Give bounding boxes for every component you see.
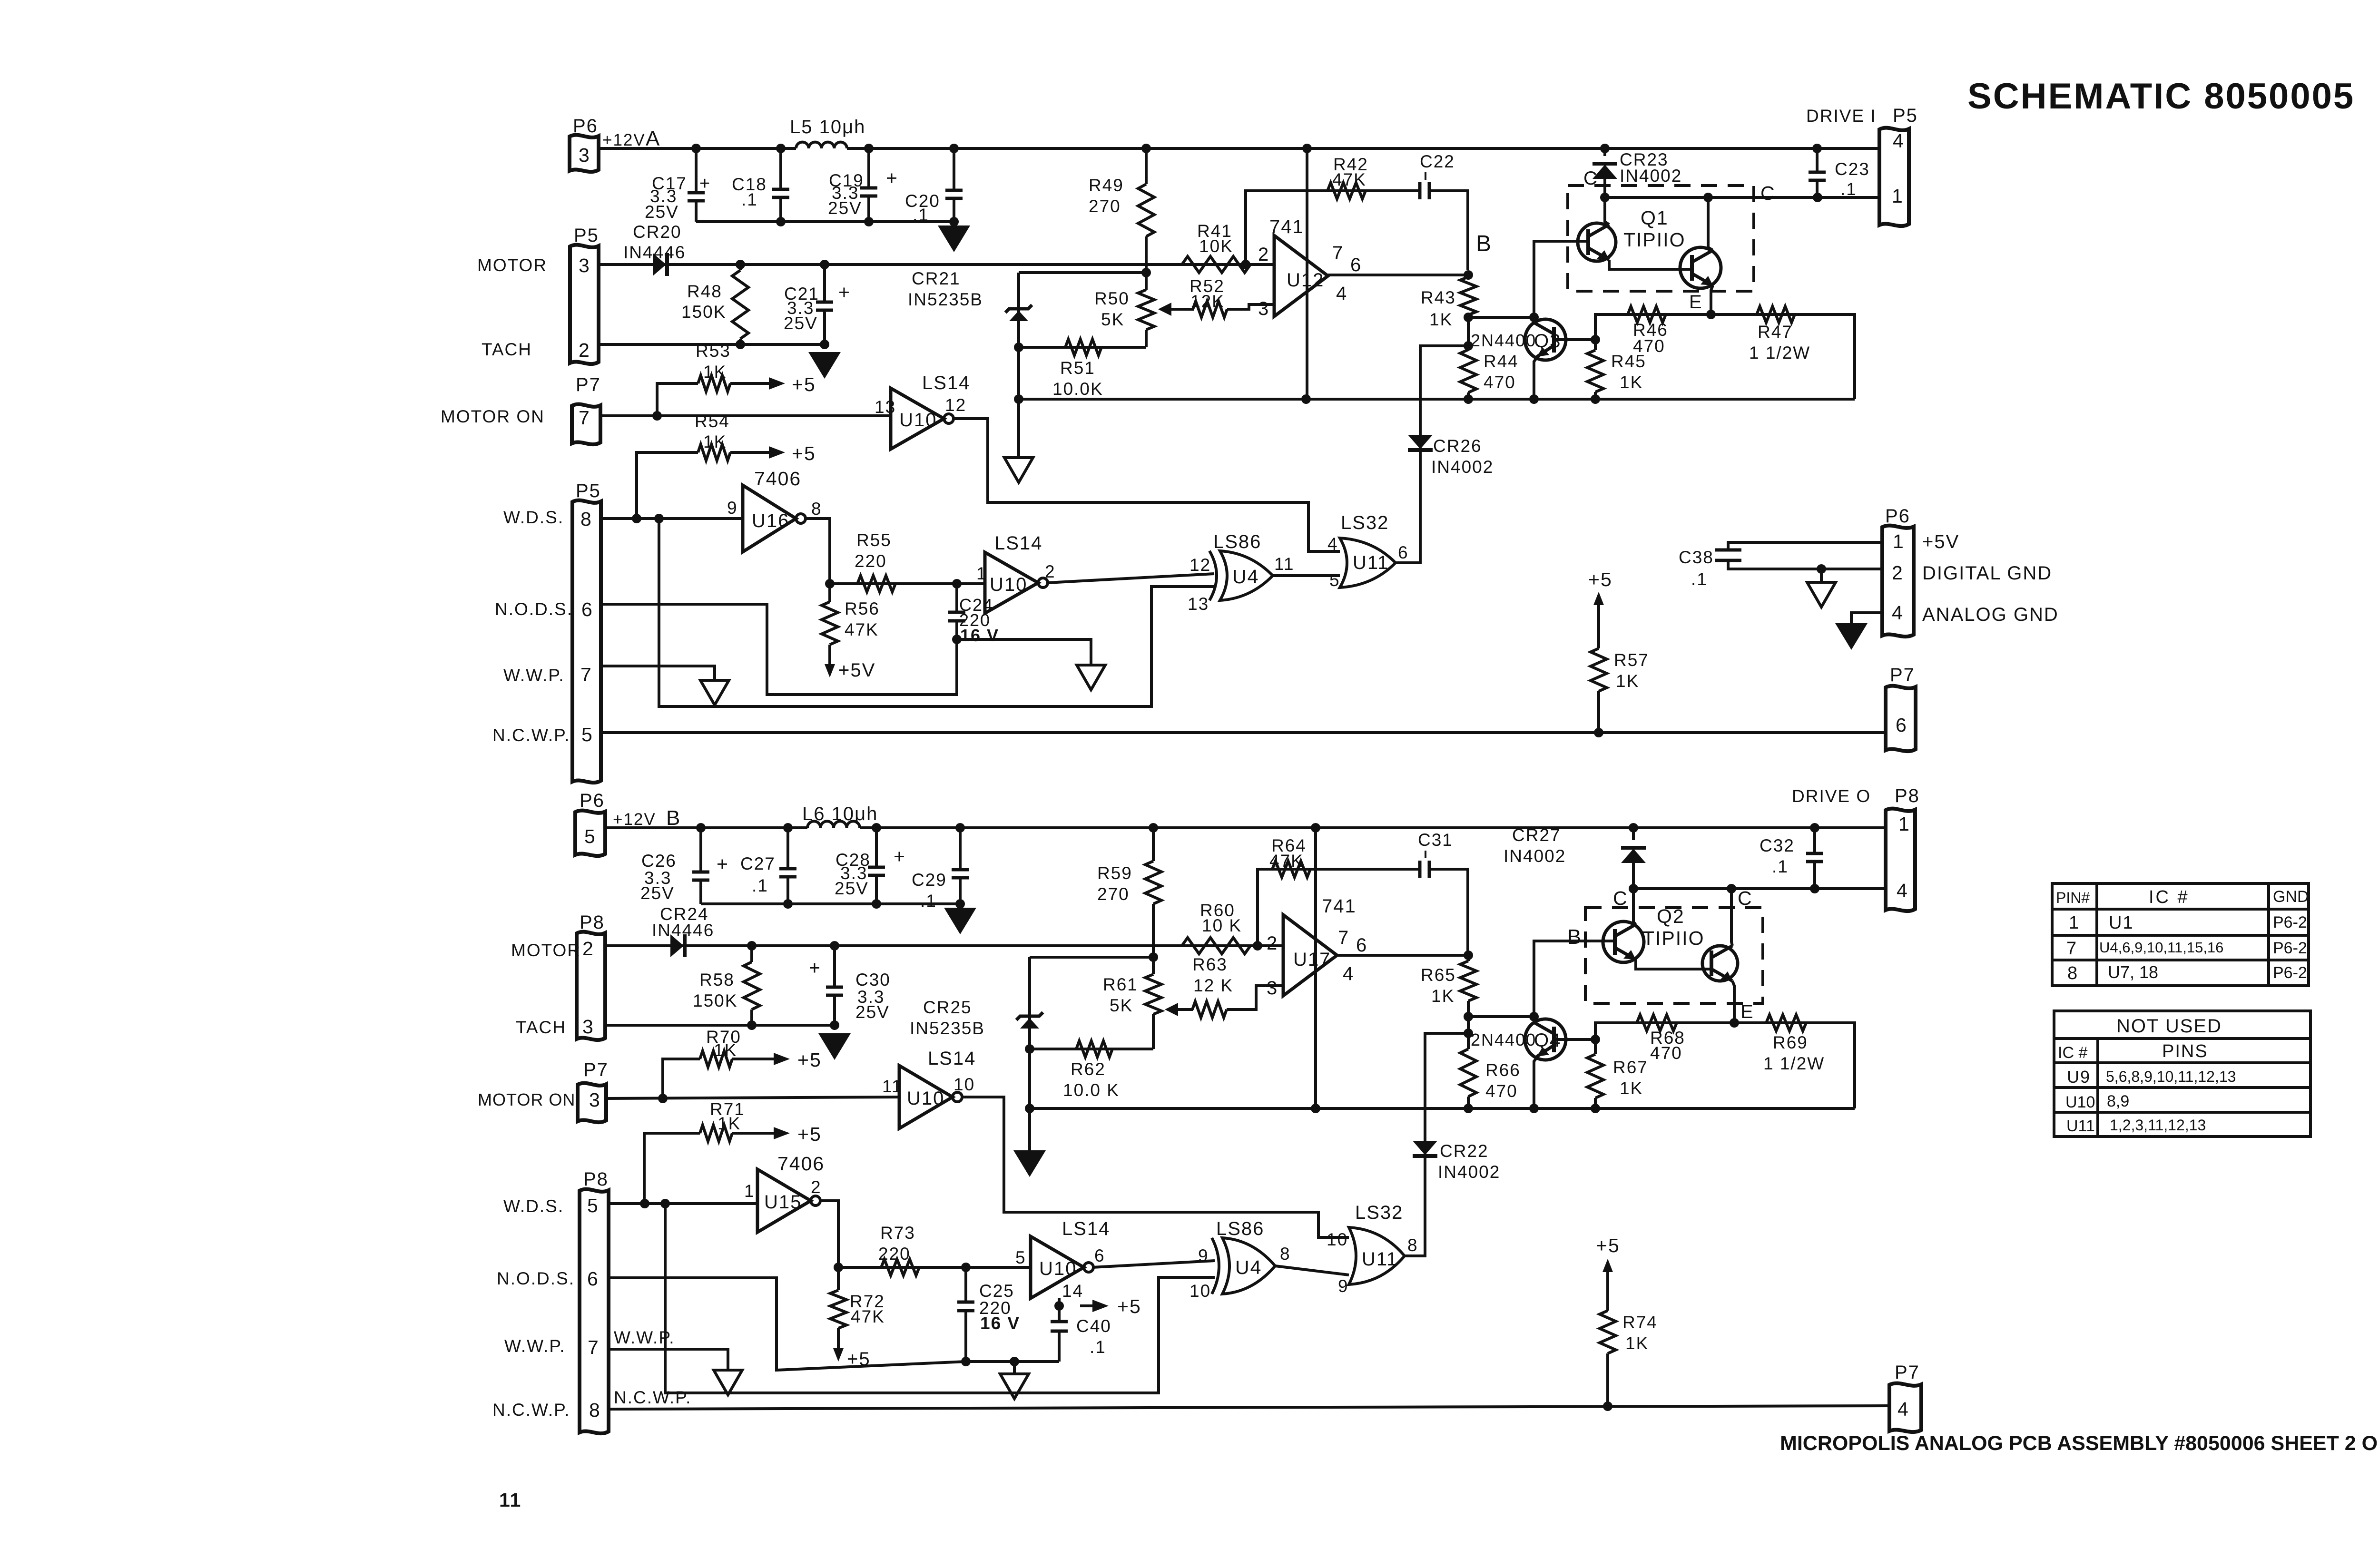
wire C24 bottom lead: [955, 621, 958, 639]
svg-text:10.0 K: 10.0 K: [1063, 1080, 1120, 1100]
svg-text:6: 6: [1094, 1246, 1105, 1265]
svg-text:IN4002: IN4002: [1431, 457, 1494, 477]
wire U4 out to U11 pin5: [1273, 574, 1340, 577]
junction C21 top: [820, 260, 829, 269]
svg-text:8: 8: [1407, 1235, 1418, 1255]
svg-text:L5 10μh: L5 10μh: [790, 117, 865, 137]
junction Q3 base node: [1591, 335, 1600, 344]
wire N.O.D.S. net: [601, 604, 957, 695]
wire C38 to digital gnd: [1728, 560, 1882, 569]
wire +12V A rail right: [847, 147, 1879, 150]
svg-text:1K: 1K: [703, 362, 727, 382]
svg-text:U11: U11: [1362, 1249, 1398, 1270]
svg-text:R66: R66: [1485, 1060, 1521, 1080]
wire U10b out to U4 pin12: [1048, 574, 1214, 583]
svg-text:10.0K: 10.0K: [1052, 379, 1103, 399]
resistor R59: [1145, 861, 1161, 904]
junction R67 bottom: [1591, 1104, 1600, 1113]
svg-text:6: 6: [587, 1268, 599, 1290]
resistor R48: [732, 270, 748, 339]
wire C31 to output B: [1429, 869, 1468, 955]
IC ground pin table: [2052, 883, 2309, 986]
svg-text:6: 6: [1350, 255, 1362, 275]
resistor R68: [1637, 1015, 1677, 1031]
svg-text:C: C: [1583, 168, 1598, 189]
svg-text:IN4002: IN4002: [1620, 166, 1682, 186]
wire C26 bottom lead: [699, 882, 702, 904]
svg-text:TIPIIO: TIPIIO: [1642, 927, 1704, 949]
capacitor C19: [860, 188, 877, 196]
svg-text:R73: R73: [880, 1223, 915, 1243]
ground (W.W.P. B): [714, 1370, 742, 1395]
junction R74 bottom: [1603, 1401, 1612, 1411]
op-amp U17 (741): [1283, 915, 1337, 996]
svg-text:1K: 1K: [1620, 1078, 1643, 1098]
svg-text:R43: R43: [1421, 288, 1456, 307]
svg-text:.1: .1: [752, 876, 768, 895]
svg-text:E: E: [1740, 1001, 1754, 1022]
wire R49 top lead: [1145, 148, 1148, 184]
svg-text:7406: 7406: [754, 468, 801, 490]
+5 arrow (pin14): [1080, 1300, 1109, 1312]
svg-text:1: 1: [1893, 530, 1905, 552]
Q2 package outline: [1585, 908, 1763, 1003]
svg-text:6: 6: [581, 598, 593, 620]
svg-text:2: 2: [1892, 562, 1904, 584]
junction R45 bottom: [1591, 394, 1600, 404]
capacitor C22: [1420, 182, 1429, 199]
wire filter ground bus B: [701, 902, 960, 905]
svg-text:6: 6: [1896, 714, 1907, 736]
svg-text:C: C: [1613, 887, 1628, 909]
svg-text:4: 4: [1336, 283, 1347, 304]
wire W.D.S. B net: [609, 1202, 757, 1205]
resistor R43: [1460, 277, 1476, 315]
svg-text:10: 10: [1327, 1230, 1348, 1249]
wire C27 top lead: [786, 828, 789, 869]
svg-text:C27: C27: [740, 854, 776, 873]
junction U12 pin2 node: [1241, 260, 1250, 269]
svg-text:150K: 150K: [693, 991, 737, 1010]
wire analog return rail: [1019, 398, 1855, 401]
svg-text:DRIVE O: DRIVE O: [1792, 786, 1871, 806]
svg-text:R62: R62: [1071, 1059, 1106, 1079]
svg-text:U10: U10: [899, 410, 937, 431]
svg-text:2N4400: 2N4400: [1471, 1030, 1536, 1049]
junction R58 top: [747, 941, 757, 951]
wire C28 bottom lead: [875, 877, 878, 904]
svg-text:+5: +5: [797, 1123, 822, 1145]
svg-text:C38: C38: [1679, 548, 1714, 567]
svg-text:+: +: [809, 957, 821, 979]
svg-text:U9: U9: [2067, 1067, 2091, 1087]
wire C30 bottom lead: [833, 997, 836, 1025]
wire TACH net: [599, 343, 825, 346]
svg-text:W.D.S.: W.D.S.: [503, 1196, 564, 1216]
svg-text:+5: +5: [792, 373, 816, 395]
svg-text:TACH: TACH: [482, 340, 532, 359]
wire U12 output: [1328, 274, 1468, 276]
svg-text:1: 1: [1898, 813, 1910, 835]
junction C29 bottom: [955, 899, 965, 909]
wire R51 net: [1019, 346, 1146, 349]
transistor Q3 (2N4400): [1525, 319, 1566, 360]
svg-text:5: 5: [581, 724, 593, 745]
junction W.D.S. B branch: [660, 1199, 670, 1208]
wire C27 bottom lead: [786, 878, 789, 904]
junction R73/R72: [834, 1263, 843, 1272]
svg-text:ANALOG GND: ANALOG GND: [1922, 604, 2059, 625]
svg-text:U4: U4: [1235, 1256, 1262, 1278]
svg-text:4: 4: [1897, 880, 1908, 902]
wire C19 bottom lead: [867, 197, 870, 222]
wire C18 top lead: [779, 148, 782, 189]
wire C40 bottom lead: [1058, 1331, 1061, 1362]
inverter U10 (LS14) section B: [985, 552, 1048, 613]
wire U17 supply vertical: [1314, 828, 1317, 1108]
zener diode CR21: [1005, 305, 1032, 321]
wire U12 supply vertical: [1306, 148, 1308, 399]
svg-text:DIGITAL GND: DIGITAL GND: [1922, 563, 2052, 584]
capacitor C24: [948, 612, 965, 621]
resistor R67: [1587, 1054, 1603, 1098]
junction R51 left: [1014, 343, 1023, 352]
svg-text:R49: R49: [1089, 176, 1124, 195]
+5 arrow (R74): [1602, 1259, 1613, 1278]
wire R49 bottom lead: [1145, 236, 1148, 273]
node C19 top: [864, 144, 874, 153]
wire R58 top lead: [750, 946, 753, 962]
wire U17 output: [1337, 954, 1468, 957]
svg-text:5: 5: [587, 1195, 599, 1216]
svg-text:11: 11: [882, 1077, 902, 1096]
svg-text:R50: R50: [1094, 289, 1130, 308]
svg-text:C: C: [1738, 887, 1753, 909]
wire to Q4 collector: [1468, 1015, 1534, 1018]
transistor Q1b (TIP110 output): [1680, 247, 1721, 288]
svg-text:10: 10: [1189, 1281, 1211, 1301]
R50 wiper arrow: [1158, 303, 1171, 316]
+5V arrow (R56): [825, 658, 835, 677]
svg-text:P7: P7: [576, 374, 601, 395]
svg-text:25V: 25V: [828, 198, 862, 218]
svg-text:TIPIIO: TIPIIO: [1623, 229, 1685, 251]
svg-text:7: 7: [579, 407, 590, 429]
svg-text:8: 8: [589, 1399, 601, 1421]
svg-text:C30: C30: [855, 970, 891, 990]
junction R48 top: [736, 260, 745, 269]
svg-text:2: 2: [582, 938, 594, 960]
svg-text:R59: R59: [1097, 863, 1132, 883]
wire C20 top lead: [953, 148, 955, 190]
wire C40 top lead: [1058, 1306, 1061, 1322]
junction U17 pin2 node: [1253, 941, 1262, 951]
junction C18 bottom: [776, 217, 786, 226]
connector P5 (MOTOR/TACH): [570, 245, 599, 364]
svg-text:1K: 1K: [1616, 671, 1639, 691]
inductor L5: [796, 142, 847, 148]
svg-text:P6-2: P6-2: [2273, 964, 2307, 982]
svg-text:U11: U11: [2066, 1117, 2095, 1135]
svg-text:CR26: CR26: [1433, 436, 1482, 456]
svg-text:25V: 25V: [645, 202, 679, 222]
svg-text:C40: C40: [1076, 1316, 1111, 1336]
junction C24 top: [952, 579, 962, 588]
svg-text:.1: .1: [1772, 857, 1789, 876]
svg-text:+: +: [699, 174, 711, 194]
capacitor C28: [868, 867, 885, 875]
svg-text:N.O.D.S.: N.O.D.S.: [497, 1269, 575, 1288]
svg-text:P6-2: P6-2: [2273, 913, 2307, 931]
analog ground (filter B): [944, 908, 976, 934]
svg-text:.1: .1: [1840, 179, 1857, 199]
svg-text:P6-2: P6-2: [2273, 939, 2307, 957]
wire R69 loop: [1734, 1023, 1855, 1108]
svg-text:16 V: 16 V: [980, 1313, 1020, 1333]
node C17 top: [691, 144, 701, 153]
svg-text:8: 8: [580, 508, 592, 530]
analog ground (filter): [938, 225, 970, 252]
connector P6 (power): [1882, 526, 1914, 637]
svg-text:LS32: LS32: [1341, 512, 1389, 533]
wire R47 loop: [1711, 314, 1855, 399]
wire W.W.P. stub: [601, 666, 715, 680]
svg-text:2: 2: [811, 1177, 822, 1197]
+5 arrow (R54): [757, 446, 785, 459]
svg-text:IC #: IC #: [2058, 1044, 2087, 1062]
node C26 top: [696, 823, 706, 833]
svg-text:E: E: [1689, 292, 1703, 313]
wire C32 top lead: [1813, 828, 1816, 853]
svg-text:Q1: Q1: [1641, 207, 1669, 229]
wire CR27 top lead: [1632, 828, 1635, 840]
wire Q1 base B: [1534, 241, 1589, 317]
connector P8 (DRIVE 0): [1886, 809, 1915, 911]
wire Q3 emitter: [1534, 358, 1537, 399]
svg-text:47K: 47K: [1332, 170, 1366, 189]
svg-text:U10: U10: [2065, 1093, 2095, 1111]
connector P8 (MOTOR/TACH): [577, 932, 605, 1040]
wire R66 bottom lead: [1467, 1097, 1470, 1108]
junction R62 left: [1025, 1044, 1034, 1054]
wire U10a out to U11 pin4: [953, 419, 1340, 551]
junction R44 bottom: [1464, 394, 1473, 404]
inverter U16 (7406): [743, 485, 806, 552]
svg-text:7406: 7406: [777, 1153, 825, 1175]
resistor R53: [698, 375, 730, 392]
wire +12V B rail right: [860, 826, 1886, 829]
svg-text:9: 9: [1338, 1276, 1349, 1296]
svg-text:P7: P7: [1895, 1362, 1920, 1383]
wire R46 net: [1595, 314, 1711, 340]
svg-text:P6: P6: [1885, 506, 1910, 527]
resistor R58: [744, 962, 760, 1009]
resistor R66: [1460, 1049, 1476, 1097]
ground (C24): [1077, 665, 1105, 690]
svg-text:N.C.W.P.: N.C.W.P.: [492, 1400, 570, 1420]
svg-text:3: 3: [579, 144, 590, 166]
wire to Q3 collector: [1468, 316, 1534, 319]
diode CR24: [670, 934, 685, 957]
resistor R47: [1757, 306, 1795, 323]
wire Q3 collector lead: [1533, 317, 1535, 320]
wire C25 top lead: [964, 1267, 967, 1302]
svg-text:741: 741: [1269, 216, 1304, 237]
wire R74 top lead: [1606, 1278, 1609, 1311]
svg-text:4: 4: [1893, 130, 1905, 152]
wire U11 out via CR26: [1394, 346, 1468, 563]
wire R67 top lead: [1594, 1039, 1597, 1054]
svg-text:7: 7: [580, 664, 592, 686]
svg-text:9: 9: [1198, 1246, 1209, 1265]
diode CR27: [1621, 848, 1646, 863]
analog ground (P6-4): [1835, 623, 1868, 650]
svg-text:3: 3: [579, 255, 590, 276]
wire +12V A rail left: [599, 147, 796, 150]
wire MOTOR B net: [605, 944, 1283, 947]
resistor R46: [1628, 306, 1666, 323]
wire U16 out: [806, 519, 830, 584]
junction rail/zener: [1014, 394, 1023, 404]
wire CR27 bottom lead: [1632, 861, 1635, 889]
svg-text:10: 10: [954, 1075, 975, 1094]
capacitor C38: [1715, 550, 1741, 560]
svg-text:.1: .1: [920, 891, 937, 911]
wire C23 top lead: [1816, 148, 1819, 172]
svg-text:3: 3: [589, 1089, 601, 1111]
junction R55/R56: [825, 579, 835, 588]
wire R74 bottom lead: [1606, 1353, 1609, 1406]
svg-text:47K: 47K: [851, 1307, 885, 1326]
svg-text:PIN#: PIN#: [2056, 889, 2090, 906]
junction C40 gnd: [1010, 1357, 1019, 1366]
junction R57 bottom: [1594, 728, 1603, 737]
svg-text:U11: U11: [1353, 552, 1389, 573]
svg-text:SCHEMATIC 8050005: SCHEMATIC 8050005: [1967, 76, 2355, 117]
svg-text:GND: GND: [2273, 888, 2309, 906]
C31 leader: [1425, 851, 1426, 858]
svg-text:5: 5: [1015, 1248, 1026, 1267]
svg-text:C29: C29: [912, 870, 947, 890]
svg-text:11: 11: [499, 1489, 521, 1511]
svg-text:R48: R48: [687, 282, 722, 301]
svg-text:12 K: 12 K: [1193, 976, 1233, 995]
capacitor C27: [779, 869, 796, 877]
wire C38 to +5V: [1728, 542, 1882, 550]
svg-text:IN4446: IN4446: [652, 921, 714, 940]
svg-text:+12V: +12V: [613, 810, 656, 829]
svg-text:MOTOR ON: MOTOR ON: [478, 1090, 575, 1109]
svg-text:+5V: +5V: [838, 660, 875, 681]
wire R52 to U12 pin3: [1227, 304, 1274, 309]
junction C32 bottom: [1810, 884, 1819, 893]
svg-text:C23: C23: [1835, 159, 1870, 179]
resistor R60: [1182, 938, 1250, 954]
capacitor C29: [952, 870, 969, 878]
svg-text:R53: R53: [696, 341, 731, 361]
wire feedback R64: [1258, 869, 1420, 946]
wire R55 net: [830, 582, 985, 585]
svg-text:C25: C25: [979, 1281, 1014, 1301]
svg-text:CR20: CR20: [633, 222, 682, 242]
junction C25 top: [961, 1263, 971, 1272]
resistor R72: [830, 1290, 846, 1328]
svg-text:8: 8: [811, 499, 822, 519]
svg-text:R61: R61: [1103, 975, 1138, 994]
svg-text:N.C.W.P.: N.C.W.P.: [492, 725, 570, 745]
wire R59 bottom to zener B: [1030, 956, 1153, 959]
R61 wiper arrow: [1165, 1003, 1178, 1016]
wire MOTOR ON B net: [606, 1097, 899, 1098]
wire R48 top lead: [739, 265, 742, 270]
svg-text:LS14: LS14: [994, 533, 1042, 554]
svg-text:CR21: CR21: [912, 269, 961, 288]
wire U10d out to U4 pin9: [1092, 1261, 1215, 1267]
OR gate U11 (LS32) section B: [1349, 1227, 1405, 1284]
potentiometer R50: [1138, 290, 1154, 330]
wire N.C.W.P. B net: [609, 1406, 1889, 1409]
diode CR26: [1408, 435, 1433, 450]
capacitor C17: [688, 193, 705, 201]
wire R63 to U17 pin3: [1227, 986, 1283, 1009]
node U12 V+: [1302, 144, 1312, 153]
connector P7 (MOTOR ON B): [578, 1083, 606, 1123]
junction C30 top: [830, 941, 839, 951]
junction R70 stub: [658, 1094, 668, 1103]
svg-text:1K: 1K: [1431, 986, 1455, 1006]
svg-text:IN4002: IN4002: [1504, 846, 1566, 866]
resistor R70: [700, 1051, 732, 1067]
svg-text:1,2,3,11,12,13: 1,2,3,11,12,13: [2110, 1117, 2206, 1134]
capacitor C18: [772, 189, 789, 197]
wire N.O.D.S. B net: [609, 1278, 1059, 1370]
resistor R41: [1182, 256, 1250, 273]
svg-text:+: +: [886, 167, 898, 189]
+5 arrow (R57): [1593, 592, 1604, 611]
svg-text:P5: P5: [1893, 105, 1918, 126]
svg-text:IC #: IC #: [2149, 887, 2190, 907]
svg-text:1K: 1K: [1625, 1333, 1649, 1353]
wire C25 bottom lead: [964, 1311, 967, 1362]
wire R61 top lead: [1152, 957, 1155, 974]
svg-text:B: B: [1567, 925, 1582, 949]
svg-text:2: 2: [1258, 244, 1269, 265]
svg-text:3: 3: [1267, 978, 1278, 999]
wire R54 right: [730, 451, 757, 454]
svg-text:IN5235B: IN5235B: [910, 1019, 985, 1038]
svg-text:LS86: LS86: [1213, 531, 1261, 552]
node R49 top: [1141, 144, 1151, 153]
wire R57 bottom lead: [1597, 691, 1600, 733]
svg-text:+: +: [838, 281, 851, 303]
wire C22 to output: [1429, 191, 1468, 270]
svg-text:R47: R47: [1758, 322, 1793, 342]
wire W.D.S. delayed to U4 pin13: [659, 519, 1214, 706]
resistor R42: [1327, 183, 1366, 199]
node R59 top: [1149, 823, 1158, 833]
svg-text:3: 3: [1258, 298, 1269, 319]
wire C21 bottom lead: [823, 312, 826, 344]
svg-text:2: 2: [579, 339, 590, 361]
capacitor C21: [816, 302, 833, 310]
junction R65/R66: [1464, 1012, 1473, 1021]
svg-text:1: 1: [2069, 913, 2080, 933]
svg-text:5,6,8,9,10,11,12,13: 5,6,8,9,10,11,12,13: [2106, 1068, 2236, 1085]
svg-text:1K: 1K: [703, 432, 727, 451]
inverter U10 (LS14) section D: [1031, 1236, 1093, 1298]
svg-text:220: 220: [855, 551, 887, 571]
XOR gate U4 (LS86): [1209, 551, 1273, 600]
